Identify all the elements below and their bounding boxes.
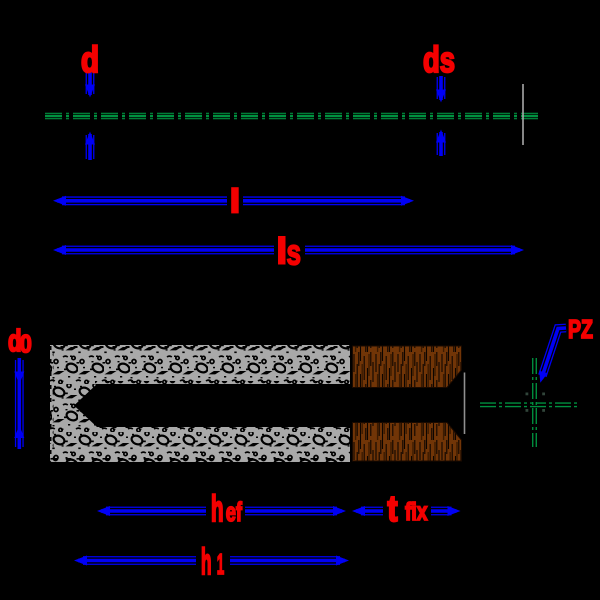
head-on view: horizontal centerline [480,402,580,407]
screw axis centerline (top view), green dash-dot [45,113,539,120]
dimension line t fix [352,506,461,516]
svg-text:d: d [81,39,99,80]
dimension ds: upper arrow [436,76,446,103]
dimension d: lower arrow [85,132,95,161]
dimension line ls [53,245,524,255]
svg-text:h: h [211,488,224,529]
svg-text:ds: ds [423,39,455,80]
label hef [206,491,245,524]
dimension line l [53,196,414,206]
svg-text:fix: fix [405,498,428,526]
svg-text:t: t [388,488,398,529]
stone slab (aerated concrete) with drilled hole and conical tip [50,345,350,462]
gray line: screw head face in section [464,373,466,435]
svg-text:PZ: PZ [568,314,593,344]
gray line: screw head face (side view) [522,84,524,145]
PZ leader arrow [539,328,566,383]
wood board lower part with countersink bevel [353,423,462,462]
svg-text:1: 1 [217,549,225,581]
stone edge roughness [48,343,350,464]
dimension d0: through line [14,358,24,449]
svg-text:h: h [201,541,212,582]
svg-text:s: s [287,231,302,272]
faint PZ recess marks at cross center [526,393,546,412]
dimension line hef [97,506,346,516]
label h1 [196,542,230,580]
label t fix [383,490,431,524]
wood board upper part with countersink bevel [353,346,462,388]
dimension ds: lower arrow [436,130,446,157]
label ls [274,232,305,269]
svg-text:0: 0 [20,331,32,359]
dimension line h1 [74,556,349,566]
label l [227,184,243,217]
dimension d: upper arrow [85,72,95,98]
head-on view: vertical centerline [532,358,537,447]
svg-text:ef: ef [226,497,243,527]
